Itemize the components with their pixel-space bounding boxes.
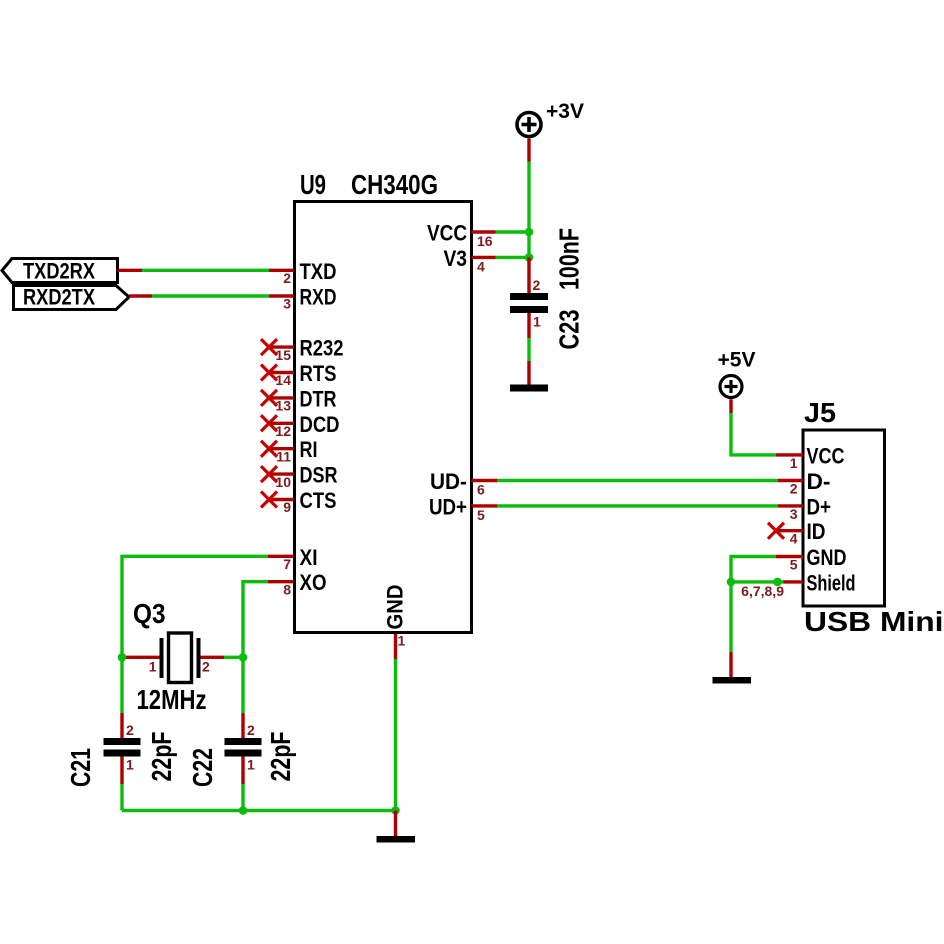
svg-text:12: 12 (275, 423, 291, 439)
J5 pin 4 ID (no connect) (768, 519, 826, 547)
svg-text:CH340G: CH340G (351, 169, 438, 200)
svg-text:22pF: 22pF (146, 732, 177, 782)
U9 pin 5 UD+ (429, 494, 497, 523)
J5 pin 1 VCC (776, 443, 845, 471)
svg-text:2: 2 (790, 481, 798, 497)
svg-text:J5: J5 (804, 397, 836, 428)
svg-text:7: 7 (283, 556, 291, 572)
svg-text:3: 3 (283, 296, 291, 312)
svg-text:D-: D- (807, 469, 831, 494)
junction XI/crystal/C21 (118, 653, 127, 662)
svg-text:3: 3 (790, 506, 798, 522)
svg-text:8: 8 (283, 581, 291, 597)
svg-text:TXD2RX: TXD2RX (23, 259, 95, 284)
wire XO net (243, 582, 268, 658)
svg-text:DTR: DTR (300, 386, 337, 411)
ground below rail (377, 836, 416, 843)
svg-text:GND: GND (383, 585, 408, 630)
svg-text:1: 1 (398, 633, 406, 649)
svg-text:DCD: DCD (300, 412, 340, 437)
svg-text:14: 14 (275, 372, 291, 388)
svg-text:U9: U9 (300, 169, 326, 200)
svg-text:GND: GND (807, 545, 847, 570)
wire RXD2TX to pin 3 (129, 294, 269, 297)
U9 pin 7 XI (268, 545, 318, 572)
wire C21 to rail (120, 757, 123, 811)
wire crystal pin2 to XO vertical (224, 656, 243, 659)
wire UD+ to D+ (497, 504, 778, 507)
wire to J5 ground (729, 652, 732, 677)
svg-text:1: 1 (533, 314, 541, 330)
svg-text:RI: RI (300, 437, 318, 462)
svg-text:11: 11 (276, 448, 291, 464)
capacitor C22 (187, 722, 296, 787)
svg-text:2: 2 (247, 722, 255, 738)
wire XI net (122, 556, 268, 657)
svg-text:CTS: CTS (300, 488, 337, 513)
svg-text:16: 16 (477, 233, 493, 249)
U9 pin 14 RTS (261, 361, 337, 388)
svg-text:2: 2 (533, 277, 541, 293)
svg-text:6: 6 (477, 482, 485, 498)
wire V3 pin to vertical (496, 256, 531, 259)
svg-text:UD-: UD- (430, 469, 467, 494)
J5 pin 3 D+ (778, 494, 831, 522)
U9 pin 2 TXD (269, 259, 337, 286)
U9 pin 8 XO (268, 570, 327, 597)
U9 pin 9 CTS (261, 488, 337, 515)
svg-text:C21: C21 (65, 748, 96, 787)
ground rail wire (122, 809, 396, 812)
svg-text:1: 1 (790, 455, 798, 471)
U9 pin 3 RXD (269, 285, 337, 312)
wire shield row (731, 580, 784, 583)
junction XO/crystal/C22 (239, 653, 248, 662)
J5 pin 5 GND (776, 545, 847, 573)
J5 pins 6,7,8,9 Shield (741, 570, 855, 598)
wire down to C22 (241, 657, 244, 738)
svg-text:RTS: RTS (300, 361, 337, 386)
svg-text:15: 15 (275, 347, 291, 363)
J5 pin 2 D- (778, 469, 831, 497)
svg-text:1: 1 (247, 757, 255, 773)
svg-text:22pF: 22pF (265, 732, 296, 782)
ground below C23 (510, 385, 548, 392)
svg-text:2: 2 (126, 722, 134, 738)
svg-text:Q3: Q3 (133, 598, 166, 629)
junction shield left (727, 578, 736, 587)
svg-text:1: 1 (149, 659, 157, 675)
svg-text:XO: XO (300, 570, 327, 595)
op-amp U9 body (295, 202, 472, 633)
svg-text:100nF: 100nF (554, 228, 585, 290)
ground below J5 (713, 677, 752, 684)
wire GND pin to rail (394, 659, 397, 811)
capacitor C23 (510, 228, 585, 350)
svg-text:10: 10 (275, 474, 291, 490)
junction at VCC (525, 228, 534, 237)
svg-text:USB Mini: USB Mini (804, 606, 944, 637)
svg-text:V3: V3 (444, 246, 468, 271)
U9 pin 10 DSR (261, 463, 338, 490)
wire C23 to ground (527, 338, 530, 385)
wire +3V down to VCC/V3 (527, 162, 530, 259)
svg-text:DSR: DSR (300, 463, 338, 488)
svg-text:TXD: TXD (300, 259, 337, 284)
U9 pin 11 RI (261, 437, 318, 464)
svg-text:R232: R232 (300, 336, 344, 361)
junction GND/rail (391, 806, 400, 815)
junction C22/rail (239, 806, 248, 815)
svg-text:VCC: VCC (427, 221, 467, 246)
wire VCC pin to vertical (496, 230, 531, 233)
svg-text:ID: ID (807, 519, 826, 544)
capacitor C21 (65, 722, 177, 787)
U9 pin 16 VCC (427, 221, 496, 250)
svg-text:RXD2TX: RXD2TX (23, 285, 95, 310)
power symbol +5V (718, 349, 756, 414)
U9 pin 6 UD- (430, 469, 497, 498)
svg-text:2: 2 (283, 270, 291, 286)
svg-text:5: 5 (790, 557, 798, 573)
svg-text:XI: XI (300, 545, 318, 570)
U9 pin 4 V3 (444, 246, 496, 275)
svg-text:UD+: UD+ (429, 494, 467, 519)
junction shield right (773, 578, 782, 587)
net flag RXD2TX (14, 285, 130, 310)
svg-text:9: 9 (283, 499, 291, 515)
wire +5V to J5 VCC (731, 413, 776, 455)
svg-text:C23: C23 (554, 310, 585, 350)
U9 pin 12 DCD (261, 412, 340, 439)
svg-text:+5V: +5V (718, 349, 756, 372)
svg-text:RXD: RXD (300, 285, 337, 310)
svg-text:2: 2 (202, 659, 210, 675)
wire down to C21 (120, 657, 123, 738)
svg-text:5: 5 (477, 507, 485, 523)
svg-text:4: 4 (790, 531, 798, 547)
wire rail to ground (394, 811, 397, 837)
wire C22 to rail (241, 757, 244, 811)
svg-text:1: 1 (126, 757, 134, 773)
svg-text:+3V: +3V (546, 100, 584, 123)
wire J5 GND down (731, 557, 776, 653)
wire UD- to D- (497, 479, 778, 482)
junction at V3 (525, 253, 534, 262)
svg-text:VCC: VCC (807, 443, 845, 468)
svg-text:12MHz: 12MHz (137, 684, 207, 715)
svg-text:13: 13 (275, 398, 291, 414)
svg-text:Shield: Shield (807, 570, 856, 595)
U9 pin 13 DTR (261, 386, 337, 413)
connector J5 body (803, 430, 885, 606)
U9 pin 1 GND (383, 585, 408, 660)
wire TXD2RX to pin 2 (118, 269, 270, 272)
svg-text:4: 4 (477, 258, 485, 274)
svg-text:C22: C22 (187, 748, 218, 787)
svg-text:D+: D+ (807, 494, 832, 519)
crystal Q3 (124, 598, 224, 715)
power symbol +3V (517, 100, 584, 162)
net flag TXD2RX (2, 259, 118, 284)
U9 pin 15 R232 (261, 336, 344, 363)
